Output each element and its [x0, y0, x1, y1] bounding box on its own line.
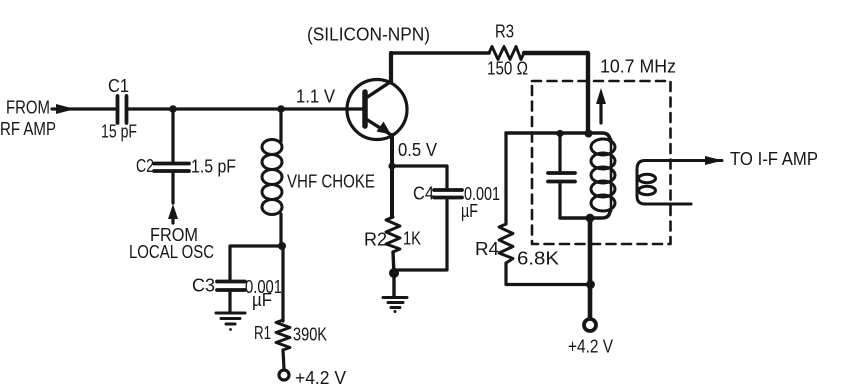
svg-text:LOCAL OSC: LOCAL OSC [129, 242, 214, 262]
node junction C3/R1 [278, 242, 286, 250]
resistor R4 [499, 224, 513, 263]
svg-text:C1: C1 [108, 76, 129, 96]
10.7 MHz up arrow [596, 88, 606, 123]
svg-text:1.1 V: 1.1 V [296, 87, 335, 107]
node FROM RF AMP input arrow [52, 104, 117, 114]
terminal +4.2V right [584, 319, 596, 331]
node tank bottom [586, 214, 595, 223]
svg-text:150 Ω: 150 Ω [487, 59, 528, 79]
svg-text:C3: C3 [192, 276, 215, 296]
terminal +4.2V left [279, 370, 289, 380]
node tank cap top [556, 130, 563, 137]
wire top rail left of R3 [391, 51, 489, 55]
capacitor C2 [154, 164, 189, 172]
wire C3 branch [230, 246, 282, 279]
svg-text:1K: 1K [403, 229, 421, 249]
svg-text:6.8K: 6.8K [517, 249, 559, 269]
wire to C4 top [392, 166, 447, 188]
node R4 return junction [586, 280, 595, 289]
svg-text:R1: R1 [254, 323, 271, 343]
svg-text:+4.2 V: +4.2 V [568, 337, 613, 357]
wire base line [127, 107, 363, 110]
svg-text:R4: R4 [475, 239, 499, 259]
node tank feed [585, 130, 593, 138]
wire R4 branch vertical [504, 133, 507, 224]
wire from local osc with up arrow [168, 173, 178, 223]
svg-text:(SILICON-NPN): (SILICON-NPN) [307, 25, 430, 45]
capacitor C3 [217, 282, 245, 291]
wire emitter down [390, 135, 394, 217]
node emitter junction [388, 162, 395, 169]
svg-text:390K: 390K [293, 325, 327, 345]
svg-text:FROM: FROM [6, 98, 50, 118]
wire R1 to terminal [283, 350, 284, 369]
inductor primary [591, 139, 615, 211]
ground (C3) [216, 313, 245, 331]
transistor Q1 [347, 80, 407, 140]
inductor secondary [637, 161, 722, 205]
svg-text:µF: µF [461, 201, 478, 221]
wire tank bottom to terminal [588, 218, 593, 317]
wire C3 to ground [228, 292, 231, 312]
wire top rail right of R3 [524, 53, 588, 134]
resistor R1 [276, 320, 290, 350]
wire choke top [279, 109, 282, 141]
svg-text:C4: C4 [413, 184, 434, 204]
svg-text:R3: R3 [495, 22, 514, 42]
resistor R2 [386, 217, 400, 252]
capacitor C4 [434, 190, 462, 198]
wire C4 bottom return [394, 200, 447, 270]
node junction choke [277, 105, 285, 113]
wire collector up [389, 53, 393, 82]
svg-text:C2: C2 [136, 156, 154, 176]
svg-text:R2: R2 [364, 230, 387, 250]
svg-text:µF: µF [252, 290, 272, 310]
wire tank cap stubs [558, 134, 561, 218]
svg-text:1.5 pF: 1.5 pF [191, 157, 236, 177]
wire R4 bottom return [506, 263, 591, 285]
ground (R2) [383, 298, 407, 314]
svg-text:0.5 V: 0.5 V [398, 140, 437, 160]
svg-text:15 pF: 15 pF [101, 122, 137, 142]
node R2/C4 junction [389, 268, 399, 278]
svg-text:TO I-F AMP: TO I-F AMP [730, 149, 818, 169]
capacitor tank [548, 173, 575, 182]
wire choke bottom [281, 214, 283, 321]
node junction C2 [169, 105, 177, 113]
wire C2 branch [171, 109, 174, 162]
svg-text:10.7 MHz: 10.7 MHz [600, 57, 676, 77]
wire TO I-F AMP arrowhead [705, 156, 723, 165]
svg-text:+4.2 V: +4.2 V [295, 368, 346, 388]
svg-text:RF AMP: RF AMP [0, 119, 56, 139]
svg-text:VHF CHOKE: VHF CHOKE [287, 172, 375, 192]
wire tank bottom line [560, 210, 610, 218]
inductor VHF choke [262, 140, 282, 215]
capacitor C1 [118, 96, 127, 123]
dashed transformer box [532, 81, 671, 244]
wire R2 bottom [393, 252, 394, 296]
resistor R3 [489, 47, 524, 60]
wire tank top line [506, 133, 610, 141]
